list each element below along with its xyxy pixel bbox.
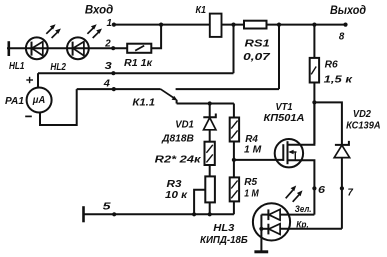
svg-text:КП501А: КП501А [264,112,305,124]
svg-text:3: 3 [105,60,112,72]
MOSFET VT1 KP501A [275,102,315,214]
svg-text:4: 4 [103,78,110,90]
wire R1 to corner up to line 1 [151,25,161,49]
svg-text:μA: μA [32,95,45,106]
wire riser x=233.5 from line1 to line3 [233,25,235,74]
wire R3 bottom [209,202,211,214]
svg-text:1 М: 1 М [244,187,259,199]
dual LED HL3 KIPD-18B [253,203,290,251]
node junction gate [232,158,236,162]
ground symbol [254,250,268,253]
node junction VD1 top [208,101,212,105]
wire switch fixed contact line [176,88,279,90]
zener diode VD2 KS139A [334,141,349,229]
ammeter PA1 [27,73,77,125]
svg-text:1 М: 1 М [244,143,261,155]
svg-text:R6: R6 [325,59,338,71]
node junction K1/RS1/line3 riser [231,23,235,27]
svg-text:R5: R5 [244,176,257,188]
svg-text:К1: К1 [196,4,207,16]
plus sign PA1 [26,77,33,83]
resistor R6 1.5k [310,58,319,83]
node junction R6 top [312,23,316,27]
wire VD1 top lead [209,104,211,118]
resistor R4 1M [230,118,239,142]
wire R4 to R5 [233,142,235,178]
input terminal bar left [8,43,11,55]
wire R5 bottom [233,201,235,214]
svg-text:HL3: HL3 [213,222,234,234]
node dot terminal 3 [111,71,115,75]
svg-text:К1.1: К1.1 [132,96,155,108]
svg-text:2: 2 [104,38,110,50]
wire bottom rail from terminal 5 [84,213,234,215]
svg-text:КС139А: КС139А [346,120,381,132]
svg-text:HL1: HL1 [9,60,25,72]
wire RS1 to output terminal 8 [267,24,346,26]
wire line 1 (top input rail) [114,24,210,26]
svg-text:VD2: VD2 [353,108,371,120]
svg-text:PA1: PA1 [5,95,24,107]
wire R2 to R3 [209,165,211,176]
wire R6 column top [313,25,315,58]
switch K1.1 blade [161,89,178,103]
resistor R1 1k [127,44,151,53]
svg-text:Выход: Выход [330,5,366,17]
svg-text:КИПД-18Б: КИПД-18Б [200,234,248,246]
svg-text:8: 8 [339,30,345,42]
wire line 4 [77,88,161,90]
LED HL2 [67,24,102,59]
node dot terminal 7 [340,186,344,190]
node junction R6/VD2/drain [312,100,316,104]
svg-text:10 к: 10 к [165,189,188,201]
wire HL1 to HL2 [48,47,67,49]
node dot terminal 8 [343,23,347,27]
node dot terminal 2 [111,46,115,50]
node dot terminal 6 [312,186,316,190]
terminal bar 5 [82,206,85,222]
wire HL2 to R1 [89,47,127,49]
minus sign PA1 [25,115,32,117]
svg-text:1,5 к: 1,5 к [324,73,353,85]
svg-text:Зел.: Зел. [295,204,312,215]
resistor R3 10k with side tap [194,176,215,214]
wire HL3 red anode line [280,228,342,230]
node dot R3 bottom [208,212,212,216]
svg-text:1: 1 [107,17,113,29]
wire input to HL1 [8,47,26,49]
wire line 3 [38,72,234,74]
svg-text:VD1: VD1 [175,119,194,131]
resistor R2* 24k [205,142,215,165]
wire branch to VD2 [314,102,342,144]
svg-text:5: 5 [103,200,111,212]
shunt resistor RS1 [244,21,267,29]
svg-text:Кр.: Кр. [296,220,309,231]
svg-text:6: 6 [318,184,325,196]
node dot terminal 1 [112,23,116,27]
node junction line1/R1 [159,23,163,27]
svg-text:Вход: Вход [85,4,113,16]
svg-text:VT1: VT1 [276,101,293,113]
HL3 light arrows [286,186,303,202]
wire K1 to RS1 [222,24,245,26]
relay coil K1 [210,14,222,37]
node dot terminal 4 [112,87,116,91]
wire switch pole line y=103.5 [177,103,234,105]
wire R6 bottom to drain [313,83,315,145]
svg-text:R2* 24к: R2* 24к [155,154,202,166]
wire riser x=279 from line1 to switch fixed contact [278,25,280,90]
svg-text:RS1: RS1 [245,38,270,50]
wire HL3 green anode line [280,214,314,216]
node dot HL3 common cathode [259,227,263,231]
svg-text:7: 7 [348,186,354,198]
svg-text:Д818В: Д818В [161,132,194,144]
wire corner down to R4 [233,104,235,118]
node junction RS1 right [277,23,281,27]
node dot R3 tap [192,212,196,216]
svg-text:R1 1к: R1 1к [124,57,153,69]
svg-text:0,07: 0,07 [243,51,271,63]
LED HL1 [26,24,61,59]
resistor R5 1M [230,177,239,201]
wire gate line [234,159,283,161]
svg-text:HL2: HL2 [50,61,66,73]
node dot terminal 5 [112,212,116,216]
zener diode VD1 D818V [203,114,216,142]
